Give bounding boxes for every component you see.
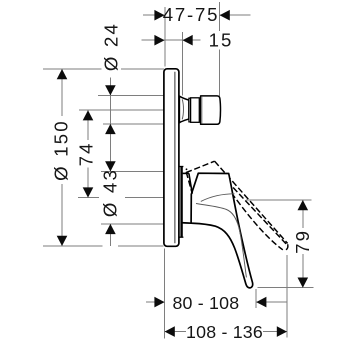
wire: O24/O43 shared dimension line upper — [109, 78, 111, 172]
handle inner curve upper — [201, 194, 235, 202]
svg-text:15: 15 — [209, 30, 234, 51]
wire: 80-108 dimension line right tail — [256, 301, 287, 303]
arrow 80-108 left — [154, 297, 164, 308]
wire: O24 bottom extension — [103, 123, 164, 125]
arrow 15 left — [154, 35, 164, 46]
arrow 15 right — [183, 35, 193, 46]
arrow O24 top — [105, 85, 116, 95]
svg-text:108 - 136: 108 - 136 — [186, 322, 263, 342]
sleeve behind handle — [180, 166, 182, 237]
knob ring — [189, 98, 191, 122]
wire: extension line x=219.4 for 47-75 down to knob — [218, 2, 220, 96]
wire: extension line x=182 for 15 — [181, 32, 183, 96]
dashed handle raised position: tip arc — [283, 244, 287, 250]
wire: 108-136 dimension line — [165, 331, 287, 333]
wire: 74 dimension line upper — [87, 110, 89, 140]
arrow 79 top — [298, 200, 309, 210]
collar edge — [189, 173, 192, 193]
wire: 79 dimension line upper — [302, 200, 304, 228]
wire: 79 bottom extension — [258, 287, 314, 289]
svg-text:Ø 43: Ø 43 — [100, 168, 121, 217]
arrow 108-136 right — [277, 326, 287, 337]
dashed handle raised position: base edge — [186, 172, 192, 193]
wire: O150 bottom extension — [43, 245, 103, 247]
knob bell shading — [182, 99, 183, 119]
svg-text:74: 74 — [76, 141, 97, 166]
wire: 79 top extension — [246, 199, 312, 201]
wire: O43 bottom extension — [101, 223, 164, 225]
arrow O24 bottom — [105, 124, 116, 134]
handle inner curve lower — [196, 204, 246, 278]
wire: O150 dimension line lower — [61, 184, 63, 246]
wire: extension from dashed handle tip — [286, 255, 288, 338]
wire: O150 dimension line upper — [61, 69, 63, 116]
arrow 80-108 right — [256, 297, 266, 308]
knob end cap — [201, 96, 221, 124]
arrow 79 bottom — [298, 278, 309, 288]
collar top edge — [183, 172, 189, 174]
svg-text:80 - 108: 80 - 108 — [172, 293, 239, 313]
svg-text:79: 79 — [292, 229, 313, 254]
wire: 80-108 dimension line left tail — [146, 301, 165, 303]
svg-text:Ø 24: Ø 24 — [100, 22, 121, 71]
wire: dimension line 47-75 right tail — [219, 14, 250, 16]
arrow 74 top — [83, 110, 94, 120]
wire: extension line left of 47-75 (plate back) — [164, 7, 166, 67]
knob bell — [179, 96, 189, 123]
wire: 74 bottom extension — [78, 197, 99, 199]
text white backings — [207, 31, 234, 50]
arrow O150 top — [57, 69, 68, 79]
wire: O24 top extension — [98, 94, 164, 96]
arrow 47-75 left — [154, 10, 164, 21]
wire: O43 top extension — [101, 171, 164, 173]
wire: 79 dimension line lower — [302, 254, 304, 288]
svg-text:Ø 150: Ø 150 — [51, 119, 72, 181]
wire: O150 top extension — [43, 68, 164, 70]
handle body (cartridge housing) — [191, 173, 253, 288]
arrow O43 bottom — [105, 224, 116, 234]
arrow 74 bottom — [83, 187, 94, 197]
arrow O43 top — [105, 161, 116, 171]
wire: 74 dimension line lower — [87, 168, 89, 198]
knob cylinder — [191, 98, 200, 123]
wire: bottom left shared extension line — [164, 249, 166, 339]
escutcheon plate (side view) — [164, 69, 179, 247]
dashed handle raised position: lower curve — [232, 193, 283, 250]
plate inner edge line — [174, 72, 176, 244]
arrow 47-75 right — [220, 10, 230, 21]
wire: dimension line 47-75 left tail — [143, 14, 165, 16]
body bottom edge extension to sleeve — [181, 222, 192, 225]
wire: O43 dimension line lower — [109, 224, 111, 246]
wire: dimension line 15 row — [142, 39, 201, 41]
wire: extension from solid handle tip — [255, 289, 257, 308]
dashed handle raised position: upper edge — [215, 161, 288, 243]
arrow O150 bottom — [57, 236, 68, 246]
dashed handle raised position: middle edge — [227, 181, 287, 245]
dashed handle raised position: base cap — [186, 161, 215, 172]
arrow 108-136 left — [165, 326, 175, 337]
knob cap shading — [201, 97, 203, 124]
wire: knob centerline / 74 top extension — [79, 109, 164, 111]
svg-text:47-75: 47-75 — [163, 4, 220, 25]
